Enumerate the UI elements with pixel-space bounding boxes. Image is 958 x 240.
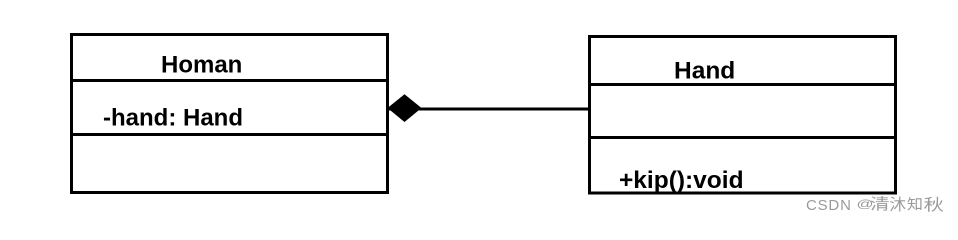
wire: composition association line Homan-Hand bbox=[388, 108, 589, 111]
class Hand attribute compartment divider bbox=[588, 136, 897, 139]
class Homan name compartment divider bbox=[70, 79, 389, 82]
svg-text:-hand: Hand: -hand: Hand bbox=[103, 105, 243, 132]
svg-text:@: @ bbox=[856, 198, 873, 211]
class box Homan (outer rectangle) bbox=[72, 35, 388, 193]
svg-text:Hand: Hand bbox=[674, 58, 735, 85]
watermark glyph 清 bbox=[871, 196, 889, 211]
svg-text:CSDN: CSDN bbox=[806, 197, 852, 214]
watermark glyph 秋 bbox=[924, 197, 943, 212]
composition diamond (filled) at Homan end bbox=[388, 94, 422, 122]
watermark glyph 知 bbox=[907, 197, 921, 211]
watermark glyph 沐 bbox=[890, 197, 905, 212]
svg-text:Homan: Homan bbox=[161, 52, 242, 79]
svg-text:+kip():void: +kip():void bbox=[619, 167, 744, 194]
class Hand name compartment divider bbox=[588, 83, 897, 86]
class Homan attribute compartment divider bbox=[70, 133, 389, 136]
class box Hand (outer rectangle) bbox=[590, 37, 896, 194]
